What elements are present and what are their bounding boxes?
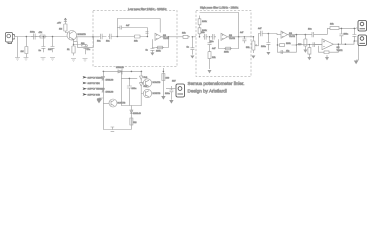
- wire bottom vertical: [130, 106, 132, 130]
- svg-text:1M: 1M: [59, 29, 62, 31]
- series cap C8: [203, 34, 208, 40]
- svg-text:47u: 47u: [87, 49, 91, 51]
- node A: [117, 36, 119, 38]
- resistor to ground: [304, 35, 307, 50]
- svg-text:10k: 10k: [134, 41, 138, 43]
- svg-text:4u7: 4u7: [258, 28, 262, 30]
- svg-text:TL072: TL072: [163, 38, 170, 40]
- wire bottom rail: [103, 129, 131, 131]
- svg-text:1N4148: 1N4148: [133, 113, 141, 115]
- ground: [303, 50, 307, 53]
- resistor to ground lower: [308, 45, 311, 57]
- svg-text:100n: 100n: [30, 32, 36, 34]
- svg-text:10n: 10n: [201, 32, 205, 34]
- ground: [161, 96, 165, 100]
- ground: [99, 98, 103, 100]
- HPF dashed box: [196, 11, 251, 77]
- wire emitter out: [74, 37, 78, 42]
- transistor Q4: [109, 99, 126, 107]
- svg-text:12V: 12V: [172, 81, 176, 83]
- top feedback wire: [200, 13, 239, 37]
- feedback resistor: [81, 44, 88, 47]
- LPF dashed box: [93, 11, 177, 67]
- resistor bottom: [130, 118, 133, 125]
- feedback capacitor 4n7: [120, 26, 125, 30]
- svg-text:50k: 50k: [246, 47, 250, 49]
- wire jack sleeve drop: [16, 37, 18, 58]
- DC jack: [176, 84, 185, 97]
- opamp output wire: [162, 36, 178, 38]
- capacitor C3 polarized: [51, 37, 55, 53]
- feedback cap: [280, 50, 285, 54]
- series cap C11: [305, 32, 327, 37]
- output cap inside box: [242, 37, 246, 44]
- svg-text:47k: 47k: [39, 32, 43, 34]
- small cap on riser: [146, 32, 149, 34]
- capacitor 100n: [169, 86, 173, 100]
- svg-text:10u: 10u: [308, 29, 312, 31]
- wire LPF to HPF: [177, 36, 182, 38]
- svg-text:1n: 1n: [146, 50, 149, 52]
- svg-text:1N4148: 1N4148: [116, 67, 124, 69]
- ground under jacks: [356, 46, 358, 61]
- ground under pot: [251, 56, 255, 59]
- series cap C10: [259, 31, 268, 37]
- ground: [169, 100, 173, 104]
- potentiometer P1: [252, 37, 255, 53]
- feedback resistor R7: [156, 46, 164, 49]
- svg-text:1k: 1k: [67, 49, 70, 51]
- svg-text:100: 100: [166, 78, 170, 80]
- svg-text:100k: 100k: [286, 43, 291, 45]
- ground triangle: [150, 53, 154, 56]
- svg-text:100n: 100n: [261, 46, 267, 48]
- resistor R5 series: [134, 35, 147, 38]
- emitter bypass cap C4: [74, 45, 88, 55]
- svg-text:10k: 10k: [330, 24, 334, 26]
- bias chain below: [208, 37, 212, 69]
- svg-text:1N4148: 1N4148: [106, 80, 114, 82]
- resistor R3 bias: [64, 22, 68, 33]
- transistor Q1: [67, 31, 86, 41]
- svg-text:22k: 22k: [212, 57, 216, 59]
- wire jack pin: [14, 36, 17, 38]
- svg-text:Semua potensiometer linier.: Semua potensiometer linier.: [188, 81, 245, 86]
- svg-text:2k2: 2k2: [133, 122, 137, 124]
- svg-text:10k: 10k: [182, 33, 186, 35]
- cap to ground C7: [150, 48, 154, 53]
- wire lower from feedback node: [296, 44, 322, 46]
- svg-text:10n: 10n: [97, 41, 101, 43]
- node after U3: [305, 34, 307, 36]
- svg-text:Low pass filter 12kHz - 102kHz: Low pass filter 12kHz - 102kHz: [128, 7, 167, 11]
- top rail wire: [103, 70, 141, 72]
- transistor Q2: [143, 79, 161, 87]
- diode D5: [130, 110, 133, 114]
- wire main input: [17, 36, 67, 38]
- svg-text:SUPPLY KIRI: SUPPLY KIRI: [88, 83, 101, 85]
- series cap C9: [211, 34, 216, 40]
- op-amp U2: [221, 33, 236, 40]
- input jack J1: [6, 33, 15, 44]
- ground: [15, 58, 20, 61]
- feedback loop U3: [277, 35, 296, 53]
- cap to ground: [266, 34, 270, 51]
- output jack J2: [356, 21, 367, 32]
- svg-text:4u7: 4u7: [240, 32, 244, 34]
- power arrow +9V: [64, 18, 67, 22]
- svg-text:4n7: 4n7: [126, 25, 130, 27]
- wire to DC jack: [166, 87, 176, 89]
- svg-text:1n: 1n: [39, 50, 42, 52]
- svg-text:BC547B: BC547B: [78, 34, 87, 36]
- output jack J3: [356, 35, 367, 46]
- feedback resistor: [324, 51, 329, 54]
- wire right vertical: [162, 68, 164, 96]
- transistor Q3: [143, 89, 161, 97]
- svg-text:1n: 1n: [187, 47, 190, 49]
- ground under U4: [326, 55, 328, 57]
- resistor R1: [25, 37, 28, 58]
- diode D4: [102, 89, 105, 93]
- diode D2: [118, 68, 122, 74]
- svg-text:High pass filter 1.0kHz - 16kH: High pass filter 1.0kHz - 16kHz: [200, 5, 239, 9]
- resistor R8: [182, 35, 190, 38]
- svg-text:TL072: TL072: [229, 38, 236, 40]
- svg-text:1M: 1M: [21, 51, 24, 53]
- resistor on top rail: [330, 27, 339, 30]
- emitter resistor R4: [72, 41, 75, 55]
- feedback resistor 100k: [280, 44, 285, 47]
- left vertical resistors: [198, 15, 201, 36]
- wire feedback inner stub: [117, 27, 120, 29]
- svg-text:100n: 100n: [165, 93, 171, 95]
- feedback loop lower Q1: [77, 37, 93, 48]
- series cap lower: [313, 42, 322, 47]
- wire up to top rail: [327, 28, 356, 34]
- svg-text:100k: 100k: [224, 52, 229, 54]
- capacitor between jacks: [352, 28, 356, 41]
- wire left vertical: [102, 71, 104, 129]
- feedback lower loop: [219, 37, 239, 49]
- svg-text:SUPPLY SUB: SUPPLY SUB: [88, 94, 101, 96]
- svg-text:BC547B: BC547B: [153, 82, 161, 84]
- cap drop: [190, 37, 194, 55]
- resistor 100: [162, 74, 165, 81]
- capacitor C6: [108, 34, 134, 40]
- ground: [50, 58, 55, 61]
- inner rect wires: [121, 71, 141, 105]
- ground: [24, 58, 29, 61]
- ground triangle: [208, 70, 212, 73]
- op-amp U4: [322, 39, 343, 52]
- ground: [41, 58, 46, 61]
- capacitor C5: [99, 34, 107, 40]
- svg-text:BC557B: BC557B: [153, 93, 161, 95]
- zener stack: [139, 71, 143, 106]
- output node after box: [253, 36, 255, 38]
- svg-text:10u: 10u: [48, 49, 52, 51]
- capacitor on bottom rail: [111, 127, 115, 131]
- feedback wire outer: [117, 19, 160, 37]
- wire bases: [141, 83, 143, 94]
- svg-text:100k: 100k: [202, 21, 208, 23]
- svg-text:Design by Aristiardi: Design by Aristiardi: [188, 89, 227, 94]
- output wire U4: [334, 41, 357, 44]
- cap between rails: [339, 28, 343, 44]
- net label arrows: [83, 76, 88, 96]
- svg-text:100n: 100n: [344, 34, 349, 36]
- node dot: [26, 36, 28, 38]
- node: [192, 36, 194, 38]
- capacitor C1: [31, 34, 38, 40]
- svg-text:100u: 100u: [132, 88, 138, 90]
- wire base Q4: [103, 102, 109, 104]
- ground: [71, 59, 76, 62]
- svg-text:+9V: +9V: [57, 23, 61, 25]
- svg-text:1N4148: 1N4148: [106, 92, 114, 94]
- resistor R2: [39, 35, 47, 38]
- svg-text:100k: 100k: [156, 51, 161, 53]
- feedback loop lower: [152, 37, 168, 48]
- svg-text:SUPPLY KANAN: SUPPLY KANAN: [88, 76, 104, 79]
- capacitor C2: [41, 37, 45, 53]
- wiper wire up: [257, 34, 260, 47]
- svg-text:4u7: 4u7: [212, 48, 216, 50]
- op-amp U3: [281, 31, 296, 38]
- svg-text:10n: 10n: [106, 41, 110, 43]
- feedback loop U4: [318, 44, 338, 52]
- diode D3: [102, 77, 105, 81]
- capacitor 100u: [127, 78, 132, 105]
- svg-text:TL072: TL072: [289, 36, 296, 38]
- op-amp U1: [155, 33, 170, 40]
